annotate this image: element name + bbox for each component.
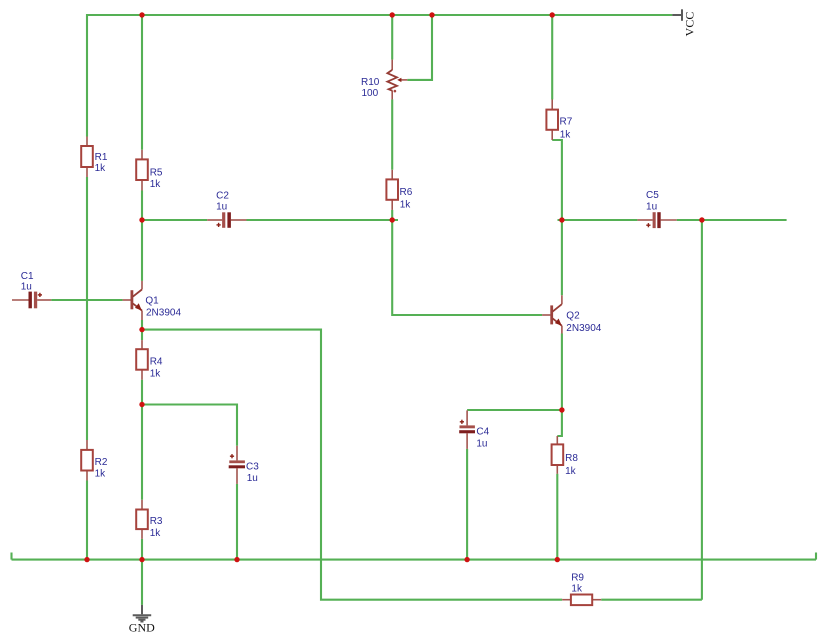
- svg-text:1k: 1k: [571, 584, 583, 595]
- svg-text:1k: 1k: [95, 163, 107, 174]
- svg-text:2N3904: 2N3904: [146, 308, 181, 319]
- svg-text:R1: R1: [95, 152, 108, 163]
- svg-text:C4: C4: [476, 427, 489, 438]
- svg-text:1k: 1k: [150, 179, 162, 190]
- svg-text:R2: R2: [95, 457, 108, 468]
- svg-text:1u: 1u: [476, 438, 487, 449]
- svg-text:2N3904: 2N3904: [566, 323, 601, 334]
- svg-text:100: 100: [362, 88, 379, 99]
- svg-text:1k: 1k: [560, 129, 572, 140]
- svg-text:1u: 1u: [247, 473, 258, 484]
- svg-text:R5: R5: [150, 167, 163, 178]
- svg-text:R3: R3: [150, 516, 163, 527]
- svg-text:1u: 1u: [216, 201, 227, 212]
- svg-text:GND: GND: [129, 620, 155, 634]
- svg-text:1k: 1k: [400, 199, 412, 210]
- svg-text:R6: R6: [400, 187, 413, 198]
- svg-text:R8: R8: [565, 453, 578, 464]
- svg-text:R9: R9: [571, 572, 584, 583]
- svg-text:1k: 1k: [150, 369, 162, 380]
- svg-text:VCC: VCC: [683, 12, 697, 37]
- svg-text:1k: 1k: [565, 466, 577, 477]
- svg-text:C5: C5: [646, 190, 659, 201]
- svg-text:C3: C3: [246, 461, 259, 472]
- svg-text:C1: C1: [21, 271, 34, 282]
- svg-text:Q1: Q1: [145, 296, 159, 307]
- svg-text:1u: 1u: [646, 202, 657, 213]
- svg-text:1u: 1u: [21, 282, 32, 293]
- svg-text:C2: C2: [216, 190, 229, 201]
- svg-text:1k: 1k: [150, 528, 162, 539]
- svg-text:R10: R10: [361, 77, 380, 88]
- svg-text:R7: R7: [560, 117, 573, 128]
- svg-text:1k: 1k: [95, 469, 107, 480]
- svg-text:R4: R4: [150, 356, 163, 367]
- svg-text:Q2: Q2: [566, 311, 580, 322]
